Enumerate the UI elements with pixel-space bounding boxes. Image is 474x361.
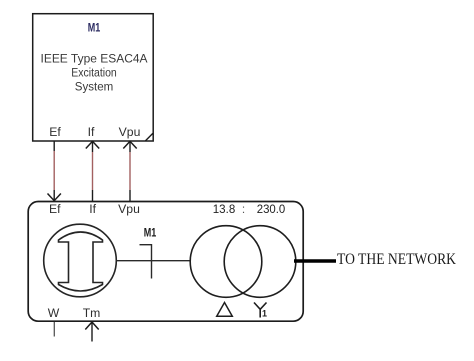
svg-text:System: System — [75, 79, 114, 93]
corner notch — [146, 133, 153, 140]
svg-text:1: 1 — [262, 309, 267, 319]
svg-text:Ef: Ef — [49, 125, 61, 139]
svg-text:If: If — [89, 202, 96, 216]
generator G machine symbol — [44, 224, 117, 297]
exciter block M1 box — [33, 14, 154, 141]
label M1 (exciter) — [88, 23, 101, 35]
label TO THE NETWORK — [337, 251, 456, 268]
svg-text:Ef: Ef — [49, 202, 61, 216]
pin label Tm — [83, 306, 101, 320]
svg-text:Vpu: Vpu — [118, 202, 140, 216]
transformer T1 — [190, 226, 296, 298]
svg-text:13.8: 13.8 — [213, 202, 236, 216]
svg-text:230.0: 230.0 — [257, 202, 286, 216]
pin label If (exciter) — [88, 125, 95, 139]
pin label Ef (generator) — [49, 202, 61, 216]
pin label Ef (exciter) — [49, 125, 61, 139]
wire generator to transformer — [116, 260, 190, 262]
wire W (output) — [53, 322, 55, 337]
wire Vpu (generator to exciter, arrow up) — [123, 141, 136, 201]
wire to network (thick) — [294, 259, 336, 263]
svg-text:M1: M1 — [88, 23, 101, 35]
transformer ratio label 13.8 : 230.0 — [213, 202, 286, 216]
bus label M1 — [144, 228, 157, 240]
wye winding symbol Y1 — [254, 303, 267, 319]
svg-text:M1: M1 — [144, 228, 157, 240]
pin label Vpu (exciter) — [119, 125, 141, 139]
wire Tm (input, arrow up) — [85, 322, 98, 342]
wire Ef (exciter to generator, arrow down) — [48, 141, 61, 201]
svg-text:TO THE NETWORK: TO THE NETWORK — [337, 251, 456, 268]
svg-text:Vpu: Vpu — [119, 125, 141, 139]
svg-text::: : — [242, 202, 245, 216]
bus M1 — [140, 244, 152, 279]
svg-text:Excitation: Excitation — [71, 65, 117, 79]
exciter description text — [41, 51, 149, 93]
pin label Vpu (generator) — [118, 202, 140, 216]
svg-text:W: W — [48, 306, 60, 320]
wire If (generator to exciter, arrow up) — [86, 141, 99, 201]
svg-text:IEEE Type ESAC4A: IEEE Type ESAC4A — [41, 51, 149, 65]
svg-text:If: If — [88, 125, 95, 139]
delta winding symbol — [217, 303, 233, 317]
svg-text:Tm: Tm — [83, 306, 101, 320]
pin label W — [48, 306, 60, 320]
generator unit box — [28, 202, 303, 322]
pin label If (generator) — [89, 202, 96, 216]
